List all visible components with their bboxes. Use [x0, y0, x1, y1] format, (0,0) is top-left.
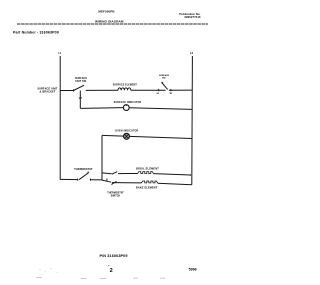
svg-text:BROIL ELEMENT: BROIL ELEMENT — [136, 167, 159, 170]
svg-text:THERMOSTAT: THERMOSTAT — [107, 192, 124, 195]
svg-text:MEF500PB: MEF500PB — [98, 10, 115, 14]
svg-text:2: 2 — [110, 268, 113, 274]
svg-text:5995277443: 5995277443 — [184, 15, 200, 19]
svg-text:5996: 5996 — [189, 268, 197, 272]
svg-text:SWITCH: SWITCH — [111, 196, 121, 198]
svg-text:UNIT SW.: UNIT SW. — [75, 80, 87, 83]
svg-text:WIRING DIAGRAM: WIRING DIAGRAM — [95, 20, 124, 24]
svg-text:SURFACE INDICATOR: SURFACE INDICATOR — [114, 101, 142, 104]
svg-text:Part Number - 316063P09: Part Number - 316063P09 — [13, 31, 59, 35]
svg-text:SW.: SW. — [162, 78, 166, 80]
svg-text:& BRACKET: & BRACKET — [40, 91, 56, 94]
svg-text:THERMOSTAT: THERMOSTAT — [74, 167, 93, 171]
svg-text:SURFACE ELEMENT: SURFACE ELEMENT — [113, 84, 138, 87]
svg-text:BAKE ELEMENT: BAKE ELEMENT — [136, 187, 158, 190]
svg-text:OVEN INDICATOR: OVEN INDICATOR — [115, 130, 138, 133]
svg-text:P/N 316063P09: P/N 316063P09 — [100, 254, 128, 258]
